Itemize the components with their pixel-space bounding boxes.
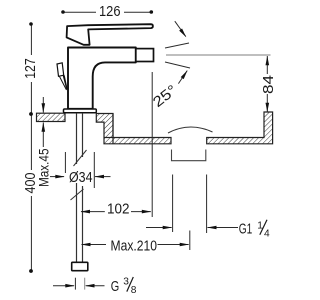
deck basin right + wall: [207, 112, 273, 144]
Max.210: [82, 244, 107, 246]
svg-text:G: G: [111, 279, 120, 295]
centerline gray: [166, 54, 271, 56]
svg-text:127: 127: [23, 58, 39, 79]
svg-text:Max.210: Max.210: [111, 239, 158, 255]
84: [266, 56, 268, 74]
deck left slab: [37, 113, 66, 121]
extension lines: [151, 72, 153, 217]
drain U fitting: [172, 150, 206, 161]
deck basin left (step + bottom): [96, 114, 171, 144]
svg-text:Ø34: Ø34: [69, 170, 93, 186]
25 deg fan lines: [165, 43, 189, 48]
break slash lower: [71, 189, 84, 200]
126 dim line: [63, 11, 96, 13]
G3/8: [53, 285, 74, 287]
svg-text:8: 8: [131, 285, 137, 296]
faucet body + spout: [68, 48, 136, 109]
G3/8: [111, 277, 137, 297]
25 deg leader lines: [175, 21, 186, 36]
G1 1/4: [146, 227, 172, 229]
svg-text:3: 3: [123, 277, 129, 288]
svg-text:4: 4: [264, 228, 270, 239]
svg-text:102: 102: [107, 201, 130, 217]
arrowheads: [42, 103, 46, 113]
svg-text:G1: G1: [239, 221, 253, 237]
G1 1/4: [239, 220, 270, 240]
handle pin rotated (left): [57, 63, 68, 90]
svg-text:Max.45: Max.45: [37, 149, 52, 188]
hose end nut: [72, 262, 88, 270]
O34: [50, 176, 64, 178]
supply pipes upper: [77, 113, 83, 164]
127/400 line: [30, 24, 32, 55]
break slash upper: [74, 150, 87, 166]
base plate: [64, 109, 97, 113]
svg-text:84: 84: [261, 75, 277, 94]
102: [81, 211, 105, 213]
basin water arc: [168, 127, 213, 133]
svg-text:126: 126: [99, 4, 121, 20]
Max.45 arrows lines: [42, 97, 44, 113]
supply pipes lower: [77, 183, 83, 262]
aerator box: [136, 49, 154, 62]
faucet handle lever: [67, 24, 153, 45]
